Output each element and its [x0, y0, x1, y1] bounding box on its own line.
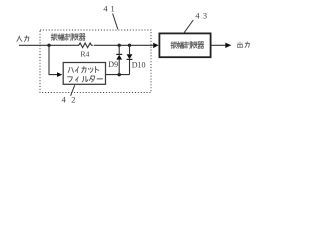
label 入力 (input)	[17, 36, 29, 42]
wire from R4 to right edge	[94, 44, 154, 46]
dashed block 41 boundary	[40, 30, 151, 93]
leader line 43	[184, 20, 193, 33]
label フィルター line 2	[67, 76, 102, 82]
arrowhead output	[225, 43, 231, 48]
diode D9 (pointing up)	[116, 45, 122, 74]
box 42 high-cut filter	[63, 63, 105, 85]
leader line 42	[71, 85, 75, 96]
svg-text:3: 3	[203, 12, 207, 21]
svg-text:R4: R4	[80, 49, 89, 58]
label ハイカット line 1	[68, 66, 98, 72]
node dot top of D9	[118, 44, 121, 47]
label 出力 (output)	[237, 42, 249, 48]
svg-text:D10: D10	[132, 60, 146, 69]
svg-text:2: 2	[71, 96, 75, 105]
diode D10 (pointing down)	[127, 45, 133, 74]
arrowhead into box 43	[153, 43, 158, 48]
node dot bottom of D9	[117, 73, 121, 77]
svg-text:1: 1	[111, 5, 115, 14]
node junction dot at input branch	[47, 44, 50, 47]
svg-text:D9: D9	[108, 60, 118, 69]
node dot top of D10	[128, 44, 131, 47]
wire branch down from node	[49, 45, 57, 74]
wire input horizontal	[19, 44, 77, 46]
leader line 41	[113, 14, 118, 30]
box 43 amplitude limiter	[159, 33, 210, 57]
arrowhead into filter box	[57, 72, 62, 77]
label 振幅制限器 (block 41)	[51, 34, 85, 41]
wire output	[211, 44, 225, 46]
label 振幅制限器 (box 43)	[171, 42, 204, 49]
resistor R4	[77, 43, 92, 48]
wire filter output to diodes	[106, 74, 130, 76]
